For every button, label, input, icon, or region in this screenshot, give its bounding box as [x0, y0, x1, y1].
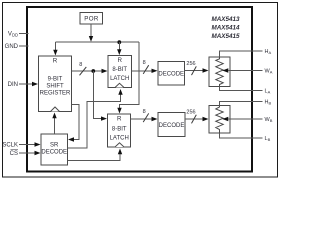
wire SR decode to latch B clock	[68, 154, 121, 161]
arrow into SR decode right edge	[68, 137, 74, 141]
svg-text:CS: CS	[10, 151, 18, 157]
svg-text:LATCH: LATCH	[110, 76, 129, 82]
junction dot bus split	[91, 69, 95, 73]
svg-text:SCLK: SCLK	[2, 143, 18, 149]
arrow into decode B	[152, 117, 158, 121]
svg-text:MAX5414: MAX5414	[212, 24, 240, 31]
arrow into shift register R	[53, 50, 57, 56]
svg-text:GND: GND	[5, 44, 19, 50]
arrow into latch B R	[117, 108, 121, 114]
svg-text:DECODE: DECODE	[41, 150, 67, 156]
arrow into resistor A box	[203, 68, 209, 72]
svg-text:DECODE: DECODE	[159, 123, 185, 129]
arrow POR onto rail	[89, 36, 93, 42]
svg-text:HA: HA	[265, 49, 272, 55]
8-bit latch B box	[108, 114, 131, 147]
arrow into decode A	[152, 69, 158, 73]
SR decode box	[41, 134, 68, 165]
arrow into latch A data	[102, 69, 108, 73]
svg-text:SHIFT: SHIFT	[46, 84, 64, 90]
wire WB wiper	[229, 118, 263, 120]
arrow wiper A	[222, 68, 228, 72]
bus latch A to decode A	[132, 70, 153, 72]
svg-text:256: 256	[186, 61, 195, 67]
wire rail dot down to latch A R	[118, 42, 120, 49]
outer frame	[3, 3, 278, 178]
bus shift register to latch A	[72, 70, 103, 72]
svg-text:REGISTER: REGISTER	[40, 91, 71, 97]
arrow into resistor B box	[203, 117, 209, 121]
svg-text:DIN: DIN	[8, 82, 18, 88]
arrow into latch B chevron	[118, 149, 122, 155]
svg-text:POR: POR	[84, 16, 99, 23]
slash 256 B	[192, 115, 197, 124]
arrow into latch B data	[101, 116, 107, 120]
svg-text:WA: WA	[265, 69, 273, 75]
svg-text:MAX5413: MAX5413	[212, 16, 240, 23]
9-bit shift register box	[39, 56, 72, 112]
wire rail left corner down to shift register R	[54, 42, 56, 50]
pin CS wire	[19, 152, 35, 154]
bus latch B to decode B	[131, 118, 153, 120]
svg-text:HB: HB	[265, 100, 272, 106]
wire HB	[220, 102, 263, 106]
wire shift register serial out to SR decode	[72, 105, 80, 140]
resistor network B box	[209, 106, 230, 134]
resistor network A box	[209, 57, 230, 87]
8-bit latch A box	[108, 56, 132, 88]
svg-text:SR: SR	[50, 143, 59, 149]
bus slash latch B	[143, 113, 149, 122]
decode B box	[158, 113, 185, 137]
svg-text:R: R	[117, 116, 122, 123]
arrow DIN into shift register	[32, 82, 38, 86]
svg-text:8-BIT: 8-BIT	[112, 127, 127, 133]
svg-text:8-BIT: 8-BIT	[112, 67, 127, 73]
latch A clock chevron	[115, 83, 124, 87]
arrow SCLK into SR decode	[35, 142, 41, 146]
shift register clock chevron	[51, 107, 60, 112]
pin DIN wire	[19, 83, 33, 85]
wire LA	[220, 87, 263, 91]
wire SR decode clock up to shift register	[54, 118, 56, 134]
junction dot on rail	[117, 40, 121, 44]
resistor A zigzag	[216, 57, 223, 87]
slash 256 A	[192, 66, 197, 75]
wire SR decode to latch A clock	[68, 95, 121, 149]
arrow wiper B	[222, 117, 228, 121]
svg-text:VDD: VDD	[8, 32, 18, 38]
svg-text:R: R	[117, 57, 122, 64]
wire rail right corner down and left to latch B R	[120, 42, 140, 108]
device boundary MAX5413	[27, 7, 252, 172]
bus slash latch A	[143, 65, 149, 74]
svg-text:LATCH: LATCH	[110, 136, 129, 142]
POR box	[80, 13, 103, 25]
arrow into latch A chevron	[118, 89, 122, 95]
resistor B zigzag	[216, 106, 223, 134]
wire decode A to resistor A	[185, 70, 204, 72]
svg-text:9-BIT: 9-BIT	[48, 77, 63, 83]
svg-text:DECODE: DECODE	[158, 72, 184, 78]
wire decode B to resistor B	[185, 118, 204, 120]
svg-text:R: R	[53, 58, 58, 65]
wire POR down to reset rail	[90, 24, 92, 36]
pin VDD stub wire	[19, 33, 29, 35]
svg-text:LA: LA	[265, 89, 271, 95]
svg-text:8: 8	[143, 109, 146, 115]
arrow into shift register chevron	[52, 113, 56, 119]
bus branch down to latch B	[93, 71, 101, 119]
latch B clock chevron	[115, 143, 124, 147]
svg-text:LB: LB	[265, 136, 271, 142]
reset rail horizontal	[55, 41, 139, 43]
wire LB	[220, 133, 263, 138]
wire HA	[220, 51, 263, 57]
svg-text:8: 8	[79, 62, 82, 68]
pin GND stub wire	[19, 45, 29, 47]
svg-text:MAX5415: MAX5415	[212, 33, 240, 40]
svg-text:8: 8	[143, 60, 146, 66]
arrow CS into SR decode	[35, 151, 41, 155]
svg-text:256: 256	[186, 109, 195, 115]
wire WA wiper	[229, 70, 263, 72]
bus slash 1	[80, 67, 87, 75]
svg-text:WB: WB	[265, 117, 273, 123]
decode A box	[158, 62, 185, 86]
pin SCLK wire	[19, 144, 35, 146]
arrow into latch A R	[117, 49, 121, 55]
